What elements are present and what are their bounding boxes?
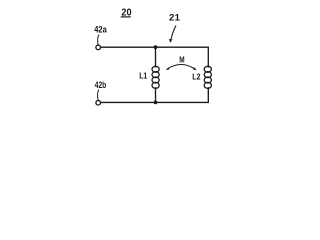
inductor L2 bbox=[204, 66, 211, 88]
junction dot top of L1 bbox=[154, 45, 158, 49]
arrowhead left of coupling arc bbox=[166, 67, 170, 70]
svg-text:L1: L1 bbox=[139, 70, 147, 80]
wire top horizontal bbox=[101, 46, 209, 48]
svg-text:M: M bbox=[179, 54, 184, 64]
arrowhead of 21 arrow bbox=[169, 39, 173, 43]
wire L1 branch top stub bbox=[155, 47, 157, 67]
leader line 42a bbox=[98, 35, 99, 45]
wire bottom horizontal bbox=[101, 101, 209, 103]
svg-text:2: 2 bbox=[169, 13, 174, 24]
wire L2 branch top stub bbox=[207, 47, 209, 67]
svg-text:42b: 42b bbox=[95, 80, 107, 90]
junction dot bottom of L1 bbox=[154, 101, 158, 105]
underline of 20 bbox=[121, 16, 131, 18]
arrow from 21 to top wire bbox=[171, 26, 176, 39]
inductor L1 bbox=[152, 66, 159, 88]
svg-text:1: 1 bbox=[175, 13, 181, 24]
wire L2 branch bottom stub bbox=[207, 88, 209, 103]
terminal 42a circle bbox=[96, 45, 101, 50]
wire L1 branch bottom stub bbox=[155, 88, 157, 103]
terminal 42b circle bbox=[96, 100, 101, 105]
svg-text:L2: L2 bbox=[192, 71, 201, 81]
svg-text:42a: 42a bbox=[94, 24, 107, 34]
leader line 42b bbox=[98, 90, 99, 100]
arrowhead right of coupling arc bbox=[193, 67, 196, 70]
mutual coupling arc bbox=[167, 64, 195, 69]
